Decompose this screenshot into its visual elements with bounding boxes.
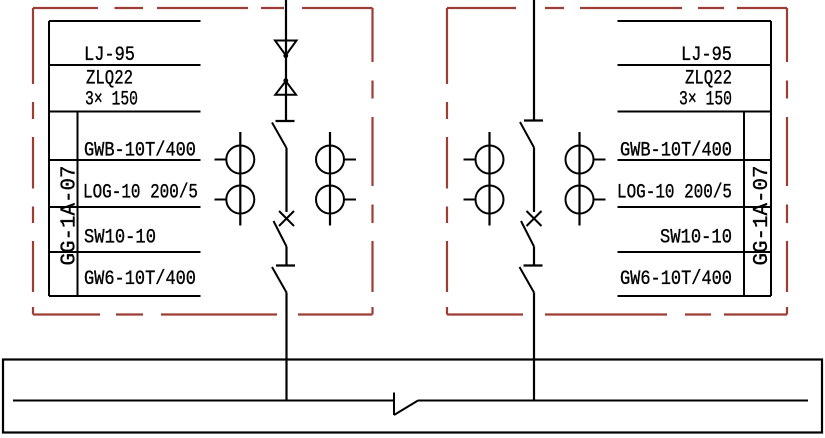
disconnector QS2 left: top contact bar [276,264,295,266]
current transformer TA2b circle 1 [566,146,594,174]
wire between breaker and QS2 (left) [285,247,287,265]
disconnector QS4 right: blade [520,267,535,293]
busbar line left section [13,400,394,402]
wire between QS3 and breaker (right) [533,148,535,213]
svg-text:GW6-10T/400: GW6-10T/400 [84,268,196,291]
disconnector QS4 right: top contact bar [524,264,543,266]
circuit breaker QF2 right: blade [521,221,534,247]
current transformer TA2a left column wire [488,132,490,226]
wire between breaker and QS4 (right) [533,247,535,265]
TA2b secondary tick 1 [594,159,606,161]
current transformer TA1b circle 2 [316,186,344,214]
svg-text:SW10-10: SW10-10 [84,227,156,250]
svg-text:LJ-95: LJ-95 [84,44,135,67]
wire: right feeder to busbar [533,293,535,401]
svg-text:LOG-10 200/5: LOG-10 200/5 [617,182,732,205]
svg-text:LOG-10 200/5: LOG-10 200/5 [83,182,198,205]
TA1b secondary tick 2 [344,199,356,201]
svg-text:GWB-10T/400: GWB-10T/400 [84,140,196,163]
current transformer TA1a circle 1 [226,146,254,174]
disconnector QS2 left: blade [272,267,287,293]
left equipment table frame [49,21,201,296]
current transformer TA1b right column wire [329,132,331,226]
current transformer TA2b right column wire [578,132,580,226]
circuit breaker QF1 left: blade [274,221,287,247]
node dot lower [283,78,288,83]
disconnector QS1 left: blade [272,123,287,149]
panel enclosure GG-1A-07 right (dashed red) [447,8,787,315]
surge arrester gap F1 lower electrode (up triangle) [275,81,296,95]
TA1a secondary tick 2 [215,199,227,201]
circuit breaker QF2 right: X contact [527,211,542,226]
busbar break symbol diagonal [394,401,418,416]
wire: right feeder drop from top [533,0,535,121]
disconnector QS3 right: top contact bar [524,119,543,121]
svg-text:3× 150: 3× 150 [679,89,732,112]
svg-text:LJ-95: LJ-95 [681,44,732,67]
surge arrester gap F1 upper electrode (down triangle) [275,41,297,56]
TA2a secondary tick 2 [464,199,476,201]
TA1b secondary tick 1 [344,159,356,161]
node dot upper [283,53,288,58]
TA1a secondary tick 1 [215,159,227,161]
current transformer TA2a circle 2 [476,186,504,214]
svg-text:ZLQ22: ZLQ22 [86,68,133,91]
current transformer TA2b circle 2 [566,186,594,214]
disconnector QS3 right: blade [520,122,534,148]
svg-text:GWB-10T/400: GWB-10T/400 [620,140,732,163]
circuit breaker QF1 left: X contact [279,211,294,226]
svg-text:GW6-10T/400: GW6-10T/400 [620,268,732,291]
TA2a secondary tick 1 [464,159,476,161]
svg-text:GG-1A-07: GG-1A-07 [751,166,774,266]
current transformer TA1b circle 1 [316,146,344,174]
wire: left feeder to busbar [285,293,287,401]
busbar enclosure box [3,360,822,433]
right equipment table frame [618,21,772,296]
svg-text:GG-1A-07: GG-1A-07 [59,166,82,266]
svg-text:SW10-10: SW10-10 [660,227,732,250]
busbar line right section [418,400,808,402]
busbar break symbol tick [393,393,395,416]
wire: left feeder drop from top [285,0,287,121]
svg-text:ZLQ22: ZLQ22 [685,68,732,91]
wire between QS1 and breaker (left) [285,148,287,212]
current transformer TA1a circle 2 [226,186,254,214]
current transformer TA2a circle 1 [476,146,504,174]
svg-text:3× 150: 3× 150 [85,89,138,112]
disconnector QS1 left: top contact bar [276,120,295,122]
panel enclosure GG-1A-07 left (dashed red) [33,8,373,315]
current transformer TA1a left column wire [239,132,241,226]
TA2b secondary tick 2 [594,199,606,201]
